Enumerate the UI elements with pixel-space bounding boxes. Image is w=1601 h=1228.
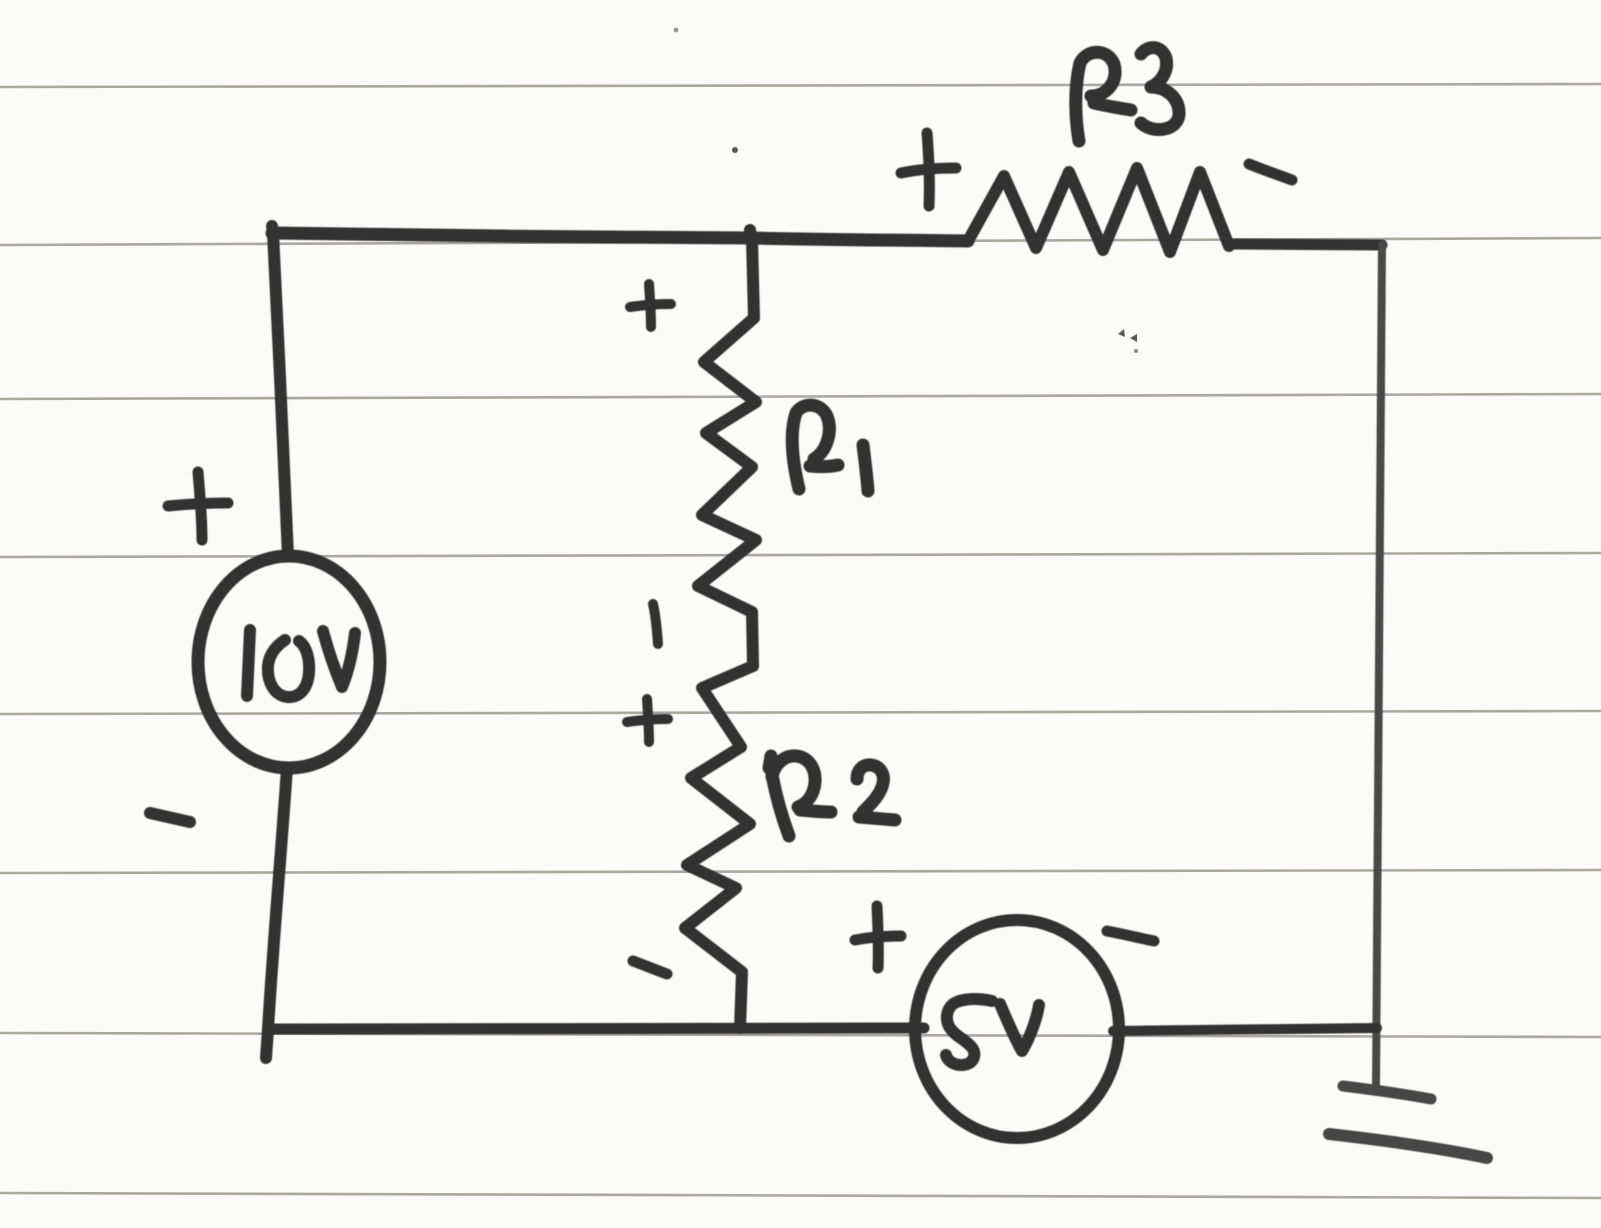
polarity + of V1 (168, 472, 228, 540)
label R3 (1076, 48, 1179, 141)
label 10V of V1 (247, 630, 355, 697)
voltage source V1 circle (198, 556, 380, 768)
ground (1329, 1086, 1487, 1158)
polarity - of V2 (1107, 931, 1154, 941)
resistor R2 (685, 666, 753, 1028)
resistor R1 (698, 240, 756, 666)
polarity - of R3 (1249, 164, 1292, 180)
resistor R3 (968, 168, 1229, 252)
label R1 (792, 405, 868, 491)
polarity + of V2 (855, 906, 901, 968)
small ink specks (decorative) (674, 28, 1139, 354)
wire left vertical bottom (266, 768, 287, 1058)
voltage source V2 circle (915, 920, 1119, 1138)
polarity + of R1 (630, 284, 671, 327)
polarity - of R2 (633, 961, 667, 974)
node top junction (750, 230, 752, 240)
wire left vertical top (272, 226, 288, 556)
wire right vertical (1376, 245, 1382, 1088)
wire bottom-right horizontal (1113, 1028, 1377, 1031)
polarity + of R3 (901, 133, 956, 206)
label R2 (769, 756, 895, 836)
wire top-middle horizontal (752, 238, 968, 241)
polarity - of V1 (150, 813, 190, 822)
polarity + of R2 (627, 699, 668, 742)
wire top-right horizontal (1229, 244, 1382, 245)
label 5V of V2 (946, 999, 1039, 1065)
wire bottom-left horizontal (268, 1028, 924, 1029)
node bottom junction of R2 (734, 1022, 746, 1034)
wire top-left horizontal (272, 233, 752, 238)
polarity - of R1 (653, 604, 658, 644)
